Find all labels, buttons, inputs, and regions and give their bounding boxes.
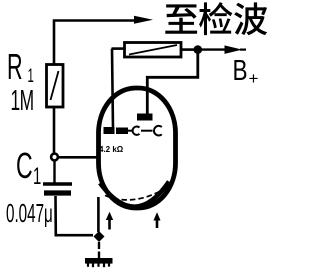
svg-text:R: R — [7, 47, 23, 87]
tube cathode rim — [105, 185, 171, 200]
wire — [54, 21, 137, 67]
wire screen lead — [147, 53, 198, 114]
heater pin — [107, 213, 113, 230]
svg-text:1: 1 — [33, 164, 41, 190]
wire grid lead — [59, 156, 98, 159]
tube plate bar — [104, 127, 129, 134]
tube screen grid blob — [137, 114, 153, 121]
tube grid structure C-C — [128, 126, 162, 136]
wire — [53, 107, 56, 154]
wire cathode lead — [97, 197, 100, 232]
svg-text:1M: 1M — [11, 85, 34, 118]
arrow B+ — [225, 46, 246, 53]
node cathode junction — [94, 231, 105, 242]
heater pin — [154, 214, 160, 229]
wire plate lead — [112, 47, 125, 50]
svg-text:+: + — [249, 69, 259, 88]
node B+ junction — [194, 45, 203, 54]
wire — [56, 196, 94, 235]
label 至检波 — [165, 2, 267, 35]
tube cathode bowl — [100, 182, 169, 207]
resistor R1 — [47, 65, 64, 108]
tube V1 envelope — [99, 88, 176, 208]
arrow to detector output — [134, 16, 153, 24]
svg-text:4.2 kΩ: 4.2 kΩ — [99, 145, 124, 154]
node grid junction — [51, 154, 58, 161]
capacitor C1 — [43, 184, 72, 193]
wire — [202, 48, 227, 50]
wire — [112, 49, 113, 129]
svg-text:C: C — [16, 147, 33, 186]
wire — [98, 242, 100, 259]
ground — [86, 259, 113, 268]
wire — [181, 48, 194, 51]
svg-text:0.047μ: 0.047μ — [6, 199, 53, 228]
wire — [53, 161, 55, 184]
resistor R2 plate load — [125, 43, 182, 58]
svg-text:B: B — [233, 53, 248, 86]
